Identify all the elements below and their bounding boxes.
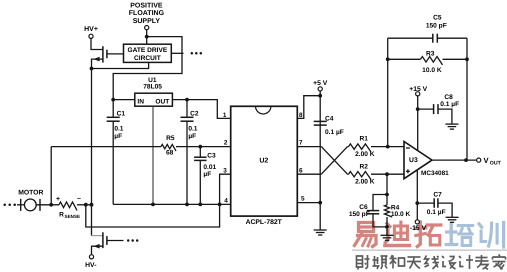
svg-text:10.0 K: 10.0 K [391, 211, 411, 218]
svg-text:MOTOR: MOTOR [18, 189, 43, 196]
svg-text:µF: µF [203, 171, 211, 178]
svg-text:7: 7 [299, 140, 303, 147]
svg-text:R5: R5 [166, 135, 175, 142]
svg-text:HV+: HV+ [84, 26, 98, 33]
svg-text:C6: C6 [359, 204, 368, 211]
svg-text:0.1 µF: 0.1 µF [427, 209, 446, 216]
svg-text:R2: R2 [359, 163, 368, 170]
svg-text:+: + [56, 196, 60, 203]
svg-text:+5 V: +5 V [313, 80, 328, 87]
svg-text:R3: R3 [426, 50, 435, 57]
svg-text:5: 5 [301, 196, 305, 203]
svg-text:µF: µF [188, 133, 196, 140]
svg-text:4: 4 [224, 198, 228, 205]
svg-text:C2: C2 [190, 111, 199, 118]
svg-text:HV-: HV- [85, 262, 96, 269]
svg-text:U3: U3 [409, 157, 418, 164]
svg-text:0.1: 0.1 [114, 126, 123, 133]
svg-text:MC34081: MC34081 [421, 170, 449, 177]
svg-text:C8: C8 [444, 94, 453, 101]
svg-text:0.1: 0.1 [188, 126, 197, 133]
svg-text:10.0 K: 10.0 K [422, 67, 442, 74]
svg-text:150 pF: 150 pF [349, 211, 370, 218]
svg-text:POSITIVE: POSITIVE [130, 3, 163, 10]
svg-text:2: 2 [224, 140, 228, 147]
svg-text:IN: IN [137, 98, 144, 105]
svg-text:0.01: 0.01 [203, 164, 216, 171]
svg-text:C4: C4 [325, 115, 334, 122]
svg-text:SENSE: SENSE [65, 214, 81, 219]
svg-text:ACPL-782T: ACPL-782T [246, 219, 283, 226]
svg-text:OUT: OUT [490, 160, 502, 166]
svg-text:FLOATING: FLOATING [129, 10, 165, 17]
svg-text:78L05: 78L05 [143, 84, 162, 91]
svg-text:GATE DRIVE: GATE DRIVE [127, 47, 167, 54]
svg-text:OUT: OUT [155, 98, 169, 105]
svg-text:2.00 K: 2.00 K [355, 179, 375, 186]
svg-text:R1: R1 [359, 135, 368, 142]
svg-text:R: R [59, 211, 64, 218]
svg-text:CIRCUIT: CIRCUIT [134, 55, 161, 62]
svg-text:C1: C1 [117, 111, 126, 118]
svg-text:U2: U2 [259, 158, 268, 165]
svg-text:C3: C3 [207, 152, 216, 159]
svg-text:2.00 K: 2.00 K [355, 151, 375, 158]
svg-text:SUPPLY: SUPPLY [133, 18, 161, 25]
svg-text:C5: C5 [433, 14, 442, 21]
svg-text:1: 1 [223, 112, 227, 119]
svg-text:6: 6 [299, 167, 303, 174]
svg-text:68: 68 [166, 150, 174, 157]
svg-text:C7: C7 [433, 191, 442, 198]
svg-text:0.1 µF: 0.1 µF [440, 101, 459, 108]
svg-text:µF: µF [114, 133, 122, 140]
svg-text:-15 V: -15 V [410, 225, 427, 232]
svg-text:–: – [77, 196, 81, 203]
svg-text:0.1 µF: 0.1 µF [325, 129, 344, 136]
svg-text:3: 3 [223, 167, 227, 174]
svg-text:150 pF: 150 pF [426, 22, 447, 29]
